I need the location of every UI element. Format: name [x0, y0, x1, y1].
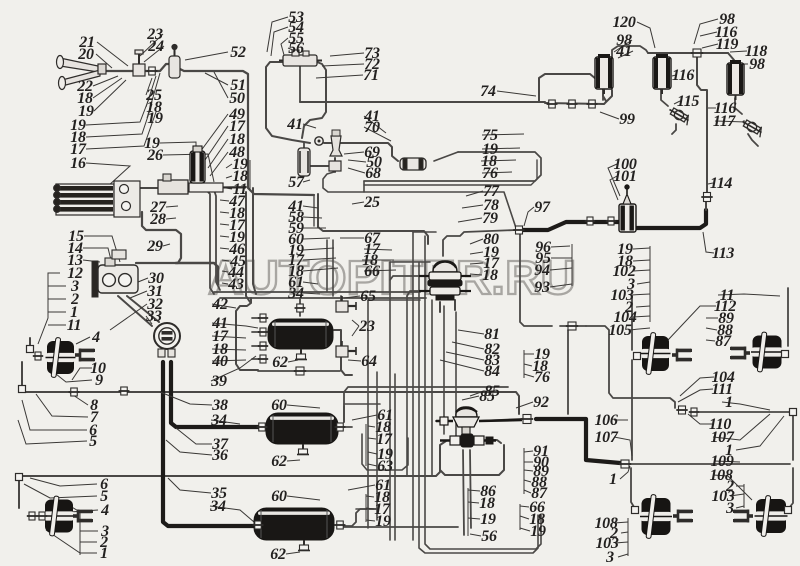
pipe — [539, 74, 600, 102]
unloader cylinder 48 — [190, 146, 205, 183]
svg-text:11: 11 — [67, 317, 82, 334]
svg-text:99: 99 — [619, 111, 635, 128]
svg-text:4: 4 — [91, 329, 100, 346]
pipe — [252, 331, 262, 333]
pipe — [536, 419, 620, 463]
horn solenoid 23/24 — [133, 50, 145, 76]
svg-text:66: 66 — [364, 263, 380, 280]
pipe — [661, 90, 668, 106]
fitting cluster — [676, 406, 687, 414]
pipe — [300, 101, 545, 103]
pipe — [344, 403, 380, 405]
pipe — [648, 52, 728, 54]
pipe — [252, 345, 262, 347]
valve 53-56 — [279, 50, 322, 66]
pipe — [407, 291, 419, 296]
pipe — [413, 231, 436, 233]
pipe — [363, 181, 365, 192]
svg-text:41: 41 — [286, 116, 302, 133]
pipe — [343, 406, 345, 422]
pipe — [699, 412, 793, 460]
pipe — [258, 370, 340, 372]
pipe — [455, 312, 457, 440]
svg-text:34: 34 — [287, 285, 304, 302]
pipe — [303, 142, 305, 148]
pipe — [520, 234, 552, 326]
fitting 34 — [295, 304, 306, 312]
fitting — [27, 512, 37, 520]
pipe — [323, 172, 516, 228]
tee — [27, 346, 34, 353]
pipe — [299, 298, 301, 316]
svg-text:87: 87 — [715, 333, 732, 350]
pipe — [364, 152, 541, 181]
drain valve 62 — [302, 444, 304, 450]
elbow — [632, 507, 639, 514]
svg-text:52: 52 — [230, 44, 246, 61]
svg-text:5: 5 — [89, 433, 97, 450]
svg-text:97: 97 — [534, 199, 551, 216]
fitting — [257, 423, 268, 431]
pressure regulator 100 — [619, 185, 636, 232]
pipe — [220, 297, 426, 299]
pipe — [481, 419, 522, 421]
pipe — [299, 66, 301, 102]
pipe — [246, 192, 250, 302]
svg-text:74: 74 — [480, 83, 496, 100]
pipe — [439, 302, 441, 312]
pipe — [705, 196, 707, 210]
pipe — [340, 509, 376, 526]
pipe — [186, 187, 246, 188]
svg-text:107: 107 — [594, 429, 618, 446]
valve 66 — [440, 434, 496, 447]
brake chamber (right) — [753, 336, 782, 369]
svg-text:23: 23 — [358, 318, 375, 335]
fitting — [258, 314, 268, 322]
svg-text:63: 63 — [377, 458, 393, 475]
antifreeze reservoir 98c — [727, 63, 744, 95]
pipe — [630, 463, 790, 465]
fitting row 99 — [547, 100, 558, 108]
svg-text:70: 70 — [364, 119, 380, 136]
pipe — [214, 190, 220, 290]
pipe — [171, 362, 260, 427]
pipe — [25, 392, 519, 414]
drain valve 62 — [300, 349, 302, 355]
spring brake chamber — [642, 498, 671, 535]
svg-text:68: 68 — [365, 165, 381, 182]
pipe — [586, 326, 675, 408]
svg-text:25: 25 — [363, 194, 380, 211]
pipe — [302, 62, 326, 138]
svg-text:36: 36 — [211, 447, 228, 464]
pipe — [332, 240, 334, 296]
pipe — [602, 90, 604, 100]
fitting 8 — [69, 388, 80, 396]
svg-text:24: 24 — [147, 38, 164, 55]
pipe — [390, 261, 430, 263]
svg-text:19: 19 — [530, 523, 546, 540]
svg-text:19: 19 — [480, 511, 496, 528]
svg-text:56: 56 — [288, 40, 304, 57]
pipe — [560, 325, 586, 327]
svg-text:26: 26 — [146, 147, 163, 164]
svg-text:18: 18 — [479, 495, 495, 512]
svg-text:16: 16 — [70, 155, 86, 172]
svg-text:3: 3 — [605, 549, 614, 566]
pipe — [603, 90, 606, 101]
pipe — [29, 338, 31, 346]
pipe — [206, 190, 214, 294]
antifreeze pump 57 — [298, 148, 310, 176]
pipe — [324, 143, 398, 161]
pipe — [443, 306, 445, 434]
air tank 60 (lower) — [254, 508, 334, 540]
pipe — [21, 362, 23, 386]
pipe — [567, 330, 569, 414]
pipe — [545, 90, 612, 104]
yoke — [73, 514, 78, 518]
svg-text:60: 60 — [271, 397, 287, 414]
pipe — [728, 53, 734, 60]
safety valve 23b — [336, 341, 356, 357]
svg-text:33: 33 — [145, 308, 162, 325]
safety valve 23a — [336, 296, 356, 312]
brake chamber 112 — [642, 336, 669, 371]
svg-text:18: 18 — [482, 267, 498, 284]
pipe — [748, 134, 758, 146]
pipe — [136, 212, 181, 263]
pipe — [367, 300, 369, 528]
air horn assembly — [57, 56, 107, 90]
pipe — [431, 300, 433, 476]
svg-text:92: 92 — [533, 394, 549, 411]
pipe — [102, 64, 172, 71]
svg-text:19: 19 — [147, 110, 163, 127]
pipe — [340, 296, 342, 300]
yoke — [745, 351, 750, 355]
svg-text:76: 76 — [534, 369, 550, 386]
pipe — [313, 196, 315, 226]
pipe — [178, 68, 314, 195]
pipe — [425, 236, 541, 549]
svg-text:1: 1 — [609, 471, 617, 488]
svg-text:50: 50 — [229, 90, 245, 107]
pipe — [356, 508, 377, 510]
tee 105 — [566, 322, 578, 330]
antifreeze reservoir 98b — [653, 57, 671, 89]
pipe — [406, 296, 408, 476]
pipe — [631, 360, 633, 460]
pipe — [163, 362, 254, 526]
svg-text:71: 71 — [363, 67, 378, 84]
valve 52 — [169, 45, 180, 79]
svg-text:34: 34 — [210, 412, 227, 429]
svg-text:65: 65 — [360, 288, 376, 305]
pipe — [252, 317, 262, 319]
cylinder 68 — [400, 158, 426, 170]
compressor 16 — [54, 181, 140, 217]
pipe — [318, 194, 428, 244]
fitting 41 round — [315, 137, 323, 145]
svg-text:94: 94 — [534, 262, 550, 279]
pipe — [252, 358, 262, 360]
svg-text:40: 40 — [211, 353, 228, 370]
pipe — [118, 296, 152, 326]
pipe — [697, 56, 707, 194]
pipe — [334, 330, 352, 375]
pipe — [394, 374, 396, 540]
svg-text:20: 20 — [77, 46, 94, 63]
svg-text:34: 34 — [209, 498, 226, 515]
pipe — [635, 210, 706, 228]
svg-text:84: 84 — [484, 363, 500, 380]
valve 117 — [740, 117, 765, 137]
svg-text:113: 113 — [712, 245, 735, 262]
yoke — [75, 353, 80, 357]
fitting — [147, 67, 158, 75]
valve 85 — [436, 407, 522, 435]
valve 69 — [330, 130, 342, 156]
valve 115 — [667, 105, 692, 125]
elbow — [634, 353, 641, 360]
pipe — [443, 230, 516, 256]
fitting — [253, 521, 264, 529]
drain valve 62 — [303, 540, 305, 546]
svg-text:101: 101 — [613, 168, 636, 185]
svg-text:57: 57 — [288, 174, 305, 191]
yoke — [673, 514, 678, 518]
tee 9 — [119, 387, 130, 395]
pipe — [436, 420, 450, 422]
pipe — [344, 387, 508, 422]
pipe — [520, 222, 618, 230]
control valve 33 — [154, 323, 180, 357]
pipe — [419, 262, 538, 553]
brake chamber 4 (front left) — [47, 341, 74, 374]
svg-text:98: 98 — [749, 56, 765, 73]
yoke — [672, 353, 677, 357]
pipe — [389, 262, 391, 540]
pipe — [434, 152, 458, 161]
svg-text:115: 115 — [677, 93, 700, 110]
svg-text:105: 105 — [608, 322, 631, 339]
svg-text:85: 85 — [479, 388, 495, 405]
antifreeze reservoir 98a — [595, 57, 613, 89]
svg-text:9: 9 — [95, 372, 103, 389]
svg-text:41: 41 — [615, 43, 631, 60]
pipe — [440, 441, 504, 475]
pipe — [463, 450, 464, 535]
pipe — [22, 452, 440, 476]
elbow — [785, 507, 792, 514]
air tank 60 (upper) — [268, 319, 333, 349]
pipe — [340, 426, 352, 428]
svg-text:3: 3 — [725, 500, 734, 517]
svg-text:120: 120 — [612, 14, 635, 31]
pipe — [735, 98, 742, 114]
brake valve 80 — [419, 261, 471, 300]
pipe — [214, 291, 420, 293]
tee 97 — [513, 226, 524, 234]
pipe — [334, 158, 336, 172]
pipe — [266, 62, 310, 143]
svg-text:1: 1 — [100, 545, 108, 562]
pipe — [787, 288, 789, 346]
pipe — [326, 240, 328, 292]
pipe — [127, 296, 159, 322]
svg-text:93: 93 — [534, 279, 550, 296]
yoke — [748, 514, 753, 518]
pipe — [376, 372, 378, 520]
pipe — [631, 468, 634, 507]
svg-text:42: 42 — [211, 296, 228, 313]
pipe — [308, 165, 328, 167]
svg-text:1: 1 — [725, 394, 733, 411]
pipe — [344, 526, 458, 528]
svg-text:60: 60 — [271, 488, 287, 505]
pipe — [454, 300, 456, 310]
four-way 64 — [294, 367, 306, 375]
tee 119 — [691, 49, 703, 57]
air tank 60 (middle) — [266, 413, 338, 444]
svg-text:114: 114 — [710, 175, 733, 192]
pipe — [390, 276, 420, 280]
pipe — [470, 450, 471, 528]
pipe — [253, 188, 256, 294]
brake chamber 1 (front left lower) — [45, 500, 73, 533]
coupling head — [521, 415, 533, 424]
svg-text:106: 106 — [594, 412, 617, 429]
pipe — [412, 232, 414, 540]
fitting 114 — [701, 193, 712, 202]
valve block 13 — [92, 250, 138, 297]
pipe — [114, 187, 158, 189]
svg-text:117: 117 — [713, 113, 737, 130]
elbow — [782, 351, 789, 358]
svg-text:43: 43 — [227, 276, 244, 293]
cross fitting 70 — [329, 161, 341, 171]
pipe — [18, 480, 20, 508]
svg-text:64: 64 — [361, 353, 377, 370]
svg-text:62: 62 — [272, 354, 288, 371]
svg-text:19: 19 — [375, 513, 391, 530]
svg-text:39: 39 — [210, 373, 227, 390]
pipe — [368, 299, 420, 301]
pipe — [612, 46, 648, 58]
spring brake chamber (right) — [756, 499, 786, 533]
pipe — [176, 263, 218, 284]
svg-text:4: 4 — [100, 502, 109, 519]
svg-text:76: 76 — [482, 165, 498, 182]
svg-text:119: 119 — [716, 36, 739, 53]
pressure governor — [158, 174, 246, 194]
svg-text:56: 56 — [481, 528, 497, 545]
svg-text:29: 29 — [146, 238, 163, 255]
pipe — [236, 298, 258, 370]
svg-text:28: 28 — [149, 211, 166, 228]
pipe — [672, 124, 676, 134]
pipe — [631, 296, 633, 350]
svg-text:62: 62 — [270, 546, 286, 563]
pipe — [362, 434, 408, 470]
svg-text:62: 62 — [271, 453, 287, 470]
svg-text:116: 116 — [672, 67, 695, 84]
svg-text:79: 79 — [482, 210, 498, 227]
pipe — [786, 468, 793, 508]
pipe — [486, 440, 501, 443]
pipe — [364, 160, 537, 185]
